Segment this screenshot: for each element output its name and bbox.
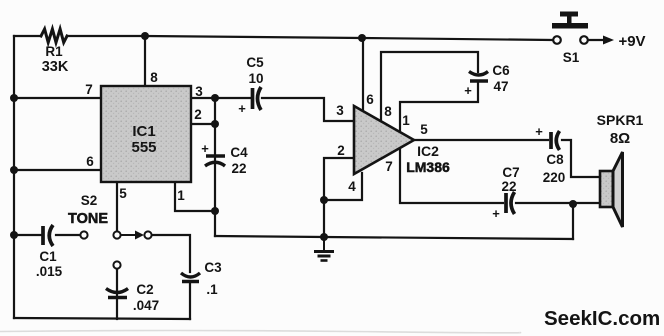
wire op-amp pin2 to ground (324, 158, 354, 237)
svg-text:4: 4 (348, 179, 356, 194)
wire top rail left segment (14, 35, 41, 37)
wire pin 5 drop of IC1 (116, 182, 118, 231)
svg-text:220: 220 (543, 170, 566, 185)
node at left rail C1 (10, 231, 18, 239)
op-amp U1 IC2 triangle (354, 106, 414, 174)
capacitor C5 (253, 87, 262, 110)
svg-text:C3: C3 (204, 260, 222, 275)
svg-text:SeekIC.com: SeekIC.com (544, 307, 660, 330)
svg-text:47: 47 (493, 79, 508, 94)
svg-text:C8: C8 (546, 152, 564, 167)
svg-text:5: 5 (420, 122, 428, 137)
capacitor C6 (469, 72, 488, 82)
svg-text:S2: S2 (81, 193, 98, 208)
wire pin8 drop to IC1 (144, 36, 146, 86)
wire scan artifact line (0, 331, 521, 333)
svg-text:R1: R1 (45, 44, 63, 59)
svg-text:6: 6 (86, 154, 94, 169)
node at op-amp pin 4 junction (320, 196, 328, 204)
svg-text:C6: C6 (492, 63, 510, 78)
wire op-amp pin7 to C7 (400, 148, 503, 203)
svg-text:2: 2 (194, 107, 202, 122)
wire C1 row (14, 234, 41, 236)
wire pin 6 of IC1 (14, 169, 101, 171)
switch S2 contact right (144, 231, 151, 238)
wire pin 1 of IC1 (175, 182, 215, 211)
capacitor C2 terminal circle (113, 261, 120, 268)
svg-text:TONE: TONE (68, 211, 108, 227)
wire C6 to op-amp pin1 (400, 82, 478, 132)
wire op-amp pin6 to rail (362, 38, 364, 111)
svg-text:2: 2 (337, 143, 345, 158)
wire C1 to S2 contact (56, 234, 80, 236)
switch S1 pushbutton (552, 12, 588, 29)
speaker SPKR1 cone (613, 152, 623, 227)
wire pin 2 of IC1 (191, 123, 215, 125)
wire op-amp pin8 to C6 (381, 52, 478, 121)
svg-text:8Ω: 8Ω (610, 130, 630, 147)
node at R1 junction (141, 32, 149, 40)
svg-text:SPKR1: SPKR1 (597, 112, 644, 128)
wire ground rail (215, 236, 573, 239)
wire op-amp pin4 (324, 173, 362, 200)
svg-text:C7: C7 (502, 165, 519, 180)
wire left rail (13, 36, 15, 318)
switch S2 wiper arrow (121, 231, 144, 240)
svg-text:.1: .1 (206, 282, 218, 297)
wire C3 lower (189, 283, 191, 319)
speaker SPKR1 driver (600, 171, 613, 207)
IC1 555 body (101, 86, 191, 182)
svg-text:7: 7 (85, 82, 93, 97)
svg-text:10: 10 (248, 71, 263, 86)
svg-text:+: + (492, 206, 500, 221)
capacitor C2 (106, 289, 128, 298)
wire C8 to speaker top (562, 140, 600, 177)
svg-text:+: + (535, 124, 543, 139)
capacitor C7 (506, 192, 515, 214)
svg-text:3: 3 (195, 84, 203, 99)
switch S1 terminal right (580, 36, 588, 44)
svg-text:8: 8 (384, 104, 392, 119)
wire S2 to C3 (152, 235, 190, 272)
svg-text:8: 8 (150, 70, 158, 85)
wire pin 7 of IC1 (14, 97, 101, 99)
wire to ground rail (214, 211, 216, 236)
wire op-amp output pin5 to C8 (414, 139, 548, 141)
svg-text:+: + (464, 83, 472, 98)
svg-text:C5: C5 (246, 55, 264, 70)
svg-text:22: 22 (231, 161, 246, 176)
ground (314, 237, 334, 261)
svg-text:5: 5 (119, 186, 127, 201)
svg-text:S1: S1 (563, 50, 580, 65)
svg-text:22: 22 (501, 179, 516, 194)
capacitor C3 (181, 273, 200, 282)
svg-text:C4: C4 (230, 145, 248, 160)
svg-text:555: 555 (131, 139, 156, 156)
wire S1 arrow line (588, 39, 604, 41)
svg-text:LM386: LM386 (406, 159, 450, 175)
node at left rail pin 6 (10, 166, 18, 174)
+9V supply arrow (603, 36, 614, 45)
node at pin 3 column (211, 94, 219, 102)
svg-text:3: 3 (336, 103, 344, 118)
node at left rail pin 7 (10, 94, 18, 102)
wire C5 to op-amp pin3 (262, 98, 354, 121)
svg-text:+: + (238, 101, 246, 116)
node at pin 2 column (211, 120, 219, 128)
wire bottom rail (14, 318, 190, 319)
node at speaker return (569, 200, 577, 208)
svg-text:6: 6 (366, 92, 374, 107)
svg-text:C1: C1 (39, 249, 57, 264)
wire C2 stem (116, 269, 118, 319)
switch S2 contact left (80, 231, 87, 238)
svg-text:7: 7 (385, 159, 393, 174)
svg-text:1: 1 (402, 113, 410, 128)
svg-text:.047: .047 (133, 298, 159, 313)
capacitor C8 (551, 131, 560, 150)
svg-text:IC1: IC1 (132, 123, 155, 140)
svg-text:33K: 33K (42, 59, 69, 75)
switch S2 pole (113, 231, 120, 238)
wire C7 to speaker bottom (516, 202, 600, 204)
node at ground rail (320, 233, 328, 241)
wire speaker return to ground rail (572, 203, 574, 239)
resistor R1 (41, 29, 67, 43)
wire top rail to S1 (67, 36, 552, 40)
wire node column C4 (214, 98, 216, 211)
capacitor C1 (43, 225, 53, 246)
node at pin 1 junction (211, 207, 219, 215)
svg-text:+: + (201, 141, 209, 156)
svg-text:.015: .015 (36, 264, 63, 279)
node at pin6 rail junction (358, 34, 366, 42)
capacitor C4 (205, 156, 225, 166)
svg-text:1: 1 (177, 188, 185, 203)
svg-text:IC2: IC2 (417, 143, 439, 159)
switch S1 terminal left (553, 36, 561, 44)
svg-text:C2: C2 (136, 282, 153, 297)
svg-text:+9V: +9V (618, 33, 645, 50)
wire pin 3 of IC1 to C5 (191, 97, 250, 99)
